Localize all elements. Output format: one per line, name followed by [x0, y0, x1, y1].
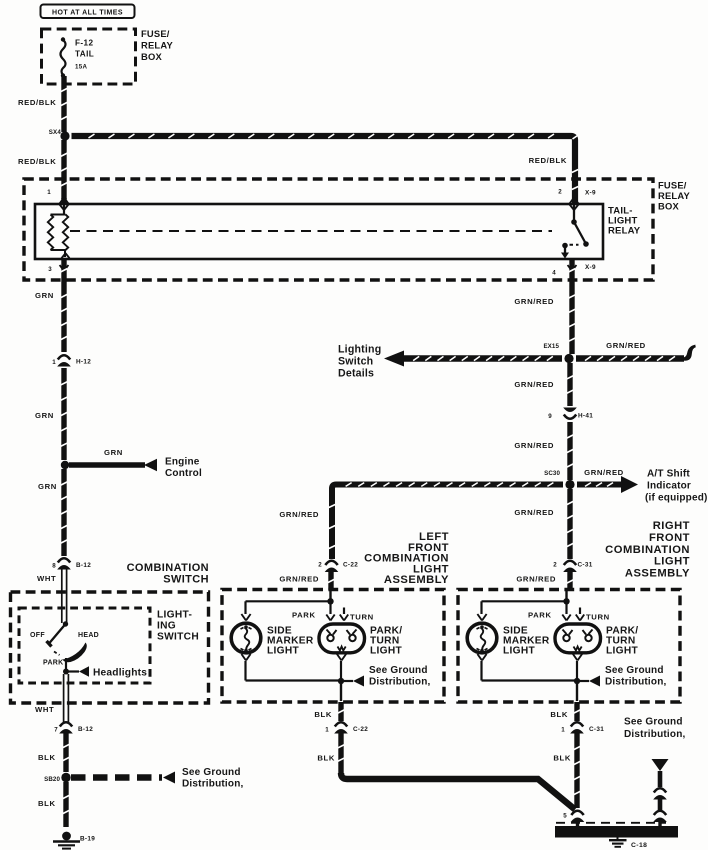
svg-text:B-19: B-19 — [80, 836, 95, 843]
svg-text:RED/BLK: RED/BLK — [18, 157, 56, 166]
svg-text:LIGHT: LIGHT — [370, 646, 403, 657]
svg-text:RELAY: RELAY — [608, 226, 641, 237]
svg-text:BLK: BLK — [314, 710, 332, 719]
svg-text:C-18: C-18 — [631, 842, 647, 849]
svg-text:Engine: Engine — [165, 457, 200, 468]
svg-text:2: 2 — [318, 562, 322, 569]
svg-text:2: 2 — [558, 189, 562, 196]
svg-text:8: 8 — [52, 563, 56, 570]
svg-text:FUSE/: FUSE/ — [141, 28, 170, 39]
svg-text:Lighting: Lighting — [338, 344, 381, 356]
svg-text:TAIL: TAIL — [75, 50, 94, 59]
svg-text:GRN: GRN — [38, 482, 57, 491]
svg-text:BLK: BLK — [553, 754, 571, 763]
svg-text:BOX: BOX — [658, 201, 679, 212]
svg-text:GRN/RED: GRN/RED — [584, 468, 624, 477]
svg-text:1: 1 — [47, 189, 51, 196]
svg-text:SB20: SB20 — [44, 776, 60, 783]
svg-text:F-12: F-12 — [75, 39, 93, 48]
svg-text:GRN/RED: GRN/RED — [606, 341, 646, 350]
svg-text:2: 2 — [553, 562, 557, 569]
svg-text:A/T Shift: A/T Shift — [647, 469, 690, 480]
svg-text:Headlights: Headlights — [93, 668, 147, 679]
svg-text:X-9: X-9 — [585, 190, 596, 197]
svg-text:GRN/RED: GRN/RED — [279, 575, 319, 584]
svg-text:Details: Details — [338, 368, 374, 380]
svg-text:PARK: PARK — [43, 660, 64, 667]
svg-text:See Ground: See Ground — [624, 717, 683, 728]
svg-text:RIGHT: RIGHT — [653, 520, 690, 532]
svg-text:SWITCH: SWITCH — [157, 632, 199, 643]
svg-text:SWITCH: SWITCH — [163, 574, 209, 586]
svg-text:Distribution,: Distribution, — [369, 677, 431, 688]
svg-text:BLK: BLK — [317, 754, 335, 763]
svg-text:GRN/RED: GRN/RED — [279, 510, 319, 519]
svg-text:TURN: TURN — [586, 613, 610, 622]
svg-text:OFF: OFF — [30, 632, 45, 639]
svg-text:RED/BLK: RED/BLK — [18, 98, 56, 107]
svg-text:See Ground: See Ground — [369, 665, 428, 676]
svg-text:H-12: H-12 — [76, 359, 91, 366]
svg-text:GRN/RED: GRN/RED — [514, 508, 554, 517]
svg-text:B-12: B-12 — [76, 562, 91, 569]
svg-text:FRONT: FRONT — [649, 532, 690, 544]
svg-text:GRN/RED: GRN/RED — [514, 441, 554, 450]
svg-text:5: 5 — [563, 813, 567, 820]
svg-text:4: 4 — [552, 270, 556, 277]
svg-text:RELAY: RELAY — [141, 39, 173, 50]
svg-text:WHT: WHT — [35, 705, 54, 714]
svg-text:HEAD: HEAD — [78, 632, 99, 639]
svg-text:ASSEMBLY: ASSEMBLY — [384, 574, 449, 586]
svg-text:PARK: PARK — [528, 611, 552, 620]
svg-text:GRN: GRN — [35, 291, 54, 300]
svg-text:Switch: Switch — [338, 356, 373, 368]
svg-text:COMBINATION: COMBINATION — [605, 544, 690, 556]
svg-text:SX4: SX4 — [49, 129, 62, 136]
svg-text:RED/BLK: RED/BLK — [529, 156, 567, 165]
svg-text:HOT AT ALL TIMES: HOT AT ALL TIMES — [52, 9, 123, 16]
svg-text:GRN/RED: GRN/RED — [514, 297, 554, 306]
svg-text:9: 9 — [548, 413, 552, 420]
svg-text:Distribution,: Distribution, — [624, 729, 686, 740]
svg-text:Distribution,: Distribution, — [182, 779, 244, 790]
svg-text:See Ground: See Ground — [605, 665, 664, 676]
svg-text:BLK: BLK — [38, 753, 56, 762]
svg-text:GRN/RED: GRN/RED — [516, 575, 556, 584]
svg-text:1: 1 — [561, 727, 565, 734]
svg-text:See Ground: See Ground — [182, 767, 241, 778]
svg-text:BLK: BLK — [550, 710, 568, 719]
svg-text:GRN: GRN — [104, 448, 123, 457]
svg-text:EX15: EX15 — [543, 343, 559, 350]
svg-text:C-22: C-22 — [353, 726, 368, 733]
svg-text:SC30: SC30 — [544, 470, 560, 477]
svg-text:PARK: PARK — [292, 611, 316, 620]
svg-text:ASSEMBLY: ASSEMBLY — [625, 568, 690, 580]
svg-text:15A: 15A — [75, 64, 87, 71]
svg-text:C-31: C-31 — [578, 562, 593, 569]
svg-text:X-9: X-9 — [585, 264, 596, 271]
svg-text:Distribution,: Distribution, — [605, 677, 667, 688]
svg-text:Indicator: Indicator — [647, 481, 691, 492]
svg-text:H-41: H-41 — [578, 413, 593, 420]
svg-text:WHT: WHT — [37, 574, 56, 583]
svg-text:LIGHT: LIGHT — [503, 646, 536, 657]
svg-text:FUSE/: FUSE/ — [658, 180, 687, 191]
svg-text:1: 1 — [52, 359, 56, 366]
svg-text:LIGHT-: LIGHT- — [157, 610, 192, 621]
svg-text:B-12: B-12 — [78, 726, 93, 733]
svg-text:LIGHT: LIGHT — [654, 556, 690, 568]
svg-text:7: 7 — [54, 727, 58, 734]
svg-text:BLK: BLK — [38, 799, 56, 808]
svg-text:Control: Control — [165, 468, 202, 479]
svg-text:GRN: GRN — [35, 411, 54, 420]
svg-text:BOX: BOX — [141, 51, 162, 62]
svg-text:C-31: C-31 — [589, 726, 604, 733]
svg-text:1: 1 — [325, 727, 329, 734]
svg-text:C-22: C-22 — [343, 562, 358, 569]
svg-text:TURN: TURN — [350, 613, 374, 622]
svg-text:LIGHT: LIGHT — [606, 646, 639, 657]
svg-text:GRN/RED: GRN/RED — [514, 380, 554, 389]
svg-text:RELAY: RELAY — [658, 190, 690, 201]
svg-text:3: 3 — [48, 266, 52, 273]
svg-text:(if equipped): (if equipped) — [645, 493, 708, 504]
svg-text:ING: ING — [157, 621, 176, 632]
svg-text:LIGHT: LIGHT — [267, 646, 300, 657]
svg-text:COMBINATION: COMBINATION — [127, 562, 209, 574]
